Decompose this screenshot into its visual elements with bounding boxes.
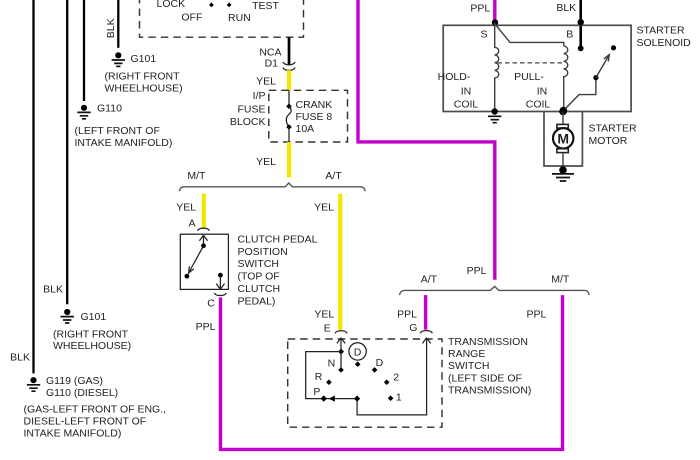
range switch arrow E <box>337 338 345 352</box>
svg-text:CLUTCH: CLUTCH <box>238 283 281 295</box>
svg-text:SWITCH: SWITCH <box>238 258 279 270</box>
svg-text:NCA: NCA <box>259 46 281 58</box>
wire BLK ground branch 2 <box>66 0 68 304</box>
svg-text:PEDAL): PEDAL) <box>238 295 276 307</box>
svg-text:PPL: PPL <box>196 321 216 333</box>
svg-text:A/T: A/T <box>421 274 438 286</box>
svg-text:RANGE: RANGE <box>448 348 485 360</box>
svg-text:RUN: RUN <box>228 12 251 24</box>
range switch junction diamond E <box>338 349 344 355</box>
svg-text:SOLENOID: SOLENOID <box>637 37 692 49</box>
contact R <box>326 379 332 385</box>
svg-text:YEL: YEL <box>314 309 334 321</box>
svg-text:SWITCH: SWITCH <box>448 360 489 372</box>
brace A/T - M/T (PPL splice) <box>400 286 590 295</box>
starter motor box <box>544 112 582 167</box>
terminal C <box>214 293 226 296</box>
svg-text:YEL: YEL <box>314 201 334 213</box>
hold-in coil <box>495 22 499 111</box>
note gas/diesel ground location <box>24 403 167 439</box>
svg-text:WHEELHOUSE): WHEELHOUSE) <box>105 82 183 94</box>
connector D1 <box>283 62 295 71</box>
svg-text:OFF: OFF <box>181 11 202 23</box>
clutch pedal position switch <box>180 234 228 289</box>
range switch wiper path <box>306 343 427 415</box>
wire BLK to solenoid B <box>579 0 582 48</box>
svg-text:D: D <box>354 346 362 358</box>
contact 1 <box>388 395 394 401</box>
transmission range switch (dashed) <box>288 339 442 427</box>
svg-text:IN: IN <box>461 85 472 97</box>
svg-text:D1: D1 <box>265 58 279 70</box>
svg-text:G101: G101 <box>131 53 157 65</box>
dashed coupling link <box>498 62 563 64</box>
svg-text:(LEFT SIDE OF: (LEFT SIDE OF <box>448 372 522 384</box>
label STARTER MOTOR <box>589 123 637 147</box>
contact P <box>321 395 327 401</box>
svg-text:1: 1 <box>396 391 402 403</box>
node pull-in coil bottom <box>560 107 568 115</box>
contact N <box>338 367 344 373</box>
svg-text:MOTOR: MOTOR <box>589 135 628 147</box>
solenoid switch arm arrowhead <box>604 55 610 62</box>
wire YEL M/T branch <box>202 194 206 228</box>
svg-text:IN: IN <box>537 85 548 97</box>
svg-text:(RIGHT FRONT: (RIGHT FRONT <box>53 328 129 340</box>
svg-text:LOCK: LOCK <box>157 0 186 10</box>
note right front wheelhouse <box>53 328 131 352</box>
circled D indicator <box>349 343 366 360</box>
svg-text:P: P <box>313 386 320 398</box>
ignition contact OFF <box>209 3 214 8</box>
wire BLK ground branch 4 <box>117 0 119 48</box>
svg-text:A/T: A/T <box>325 170 342 182</box>
svg-text:(GAS-LEFT FRONT OF ENG.,: (GAS-LEFT FRONT OF ENG., <box>24 403 167 415</box>
wire YEL below fuse block <box>287 142 291 178</box>
contact 2 <box>384 379 390 385</box>
terminal A <box>198 228 210 231</box>
svg-text:BLK: BLK <box>556 2 576 14</box>
svg-text:M/T: M/T <box>187 170 206 182</box>
label CRANK FUSE 8 10A <box>296 99 333 135</box>
wire PPL to solenoid S <box>493 0 496 22</box>
brace M/T - A/T <box>179 183 365 191</box>
svg-text:BLK: BLK <box>43 284 63 296</box>
svg-text:INTAKE MANIFOLD): INTAKE MANIFOLD) <box>75 137 173 149</box>
contact corner diamond <box>354 396 360 402</box>
svg-text:COIL: COIL <box>454 98 479 110</box>
svg-text:G119 (GAS): G119 (GAS) <box>46 375 103 387</box>
svg-text:10A: 10A <box>296 123 315 135</box>
wire YEL A/T branch <box>338 194 342 330</box>
label HOLD-IN COIL <box>438 71 479 110</box>
svg-text:E: E <box>324 322 331 334</box>
solenoid contact linkage <box>563 78 596 111</box>
svg-text:POSITION: POSITION <box>238 246 288 258</box>
ground G110 intake manifold <box>77 105 90 119</box>
svg-text:BLK: BLK <box>105 18 117 38</box>
svg-text:COIL: COIL <box>526 98 551 110</box>
svg-text:N: N <box>328 357 336 369</box>
wire PPL main from top <box>358 0 495 280</box>
pull-in coil <box>564 46 568 111</box>
svg-text:PULL-: PULL- <box>514 71 544 83</box>
label CLUTCH PEDAL POSITION SWITCH (TOP OF CLUTCH PEDAL) <box>238 233 318 307</box>
svg-text:D: D <box>376 357 384 369</box>
svg-text:DIESEL-LEFT FRONT OF: DIESEL-LEFT FRONT OF <box>24 415 147 427</box>
terminal E <box>335 331 347 334</box>
node motor feed <box>559 108 567 116</box>
svg-text:PPL: PPL <box>397 308 417 320</box>
wire NCA from ignition switch <box>288 37 291 65</box>
wire PPL A/T branch to G <box>424 295 427 330</box>
label STARTER SOLENOID <box>637 24 692 49</box>
svg-text:M: M <box>557 131 569 147</box>
ground below hold-in coil <box>488 108 501 122</box>
svg-text:STARTER: STARTER <box>589 123 637 135</box>
ground G101 wheelhouse upper <box>112 52 125 66</box>
contact B stub <box>578 45 584 51</box>
svg-text:A: A <box>188 218 195 230</box>
svg-text:PPL: PPL <box>470 3 490 15</box>
wire BLK ground branch 1 <box>32 0 34 373</box>
wire BLK ground branch 3 <box>83 0 85 101</box>
motor M1 <box>553 112 573 167</box>
svg-text:FUSE 8: FUSE 8 <box>296 111 333 123</box>
terminal G <box>420 331 432 334</box>
note right front wheelhouse upper <box>105 71 183 95</box>
svg-text:(RIGHT FRONT: (RIGHT FRONT <box>105 71 181 83</box>
svg-text:TRANSMISSION): TRANSMISSION) <box>448 385 531 397</box>
contact D <box>372 367 378 373</box>
svg-text:HOLD-: HOLD- <box>438 71 471 83</box>
ignition switch (dashed box, cut at top) <box>140 0 304 37</box>
svg-text:STARTER: STARTER <box>637 24 685 36</box>
link S to pull-in coil <box>495 24 564 46</box>
label I/P FUSE BLOCK <box>230 90 266 128</box>
svg-text:G: G <box>409 322 417 334</box>
svg-text:B: B <box>566 29 573 41</box>
node B <box>578 19 584 25</box>
node S <box>492 19 498 25</box>
svg-text:I/P: I/P <box>253 90 266 102</box>
ignition contact RUN <box>227 3 232 8</box>
solenoid fixed contact <box>611 45 616 50</box>
label TRANSMISSION RANGE SWITCH (LEFT SIDE OF TRANSMISSION) <box>448 336 531 397</box>
svg-text:C: C <box>207 297 215 309</box>
solenoid switch pivot <box>593 75 598 80</box>
svg-text:YEL: YEL <box>256 156 276 168</box>
svg-text:PPL: PPL <box>526 308 546 320</box>
svg-text:TRANSMISSION: TRANSMISSION <box>448 336 528 348</box>
I/P fuse block (dashed) <box>269 90 348 142</box>
svg-text:INTAKE MANIFOLD): INTAKE MANIFOLD) <box>24 428 122 440</box>
svg-text:YEL: YEL <box>256 75 276 87</box>
ground G101 wheelhouse <box>61 309 74 323</box>
svg-text:(TOP OF: (TOP OF <box>238 271 280 283</box>
svg-text:TEST: TEST <box>252 0 279 12</box>
svg-text:YEL: YEL <box>176 201 196 213</box>
contact circled D <box>355 361 361 367</box>
svg-text:WHEELHOUSE): WHEELHOUSE) <box>53 340 131 352</box>
svg-text:S: S <box>480 29 487 41</box>
note left front of intake manifold <box>75 125 173 149</box>
svg-text:G110 (DIESEL): G110 (DIESEL) <box>46 387 118 399</box>
svg-text:R: R <box>315 371 323 383</box>
label PULL-IN COIL <box>514 71 550 110</box>
solenoid switch arm <box>596 55 609 78</box>
starter solenoid box <box>443 25 631 111</box>
wire YEL connector to fuse block <box>287 70 291 90</box>
svg-text:CLUTCH PEDAL: CLUTCH PEDAL <box>238 233 318 245</box>
svg-text:PPL: PPL <box>467 265 487 277</box>
fuse lead upper <box>288 90 290 106</box>
svg-text:M/T: M/T <box>551 274 570 286</box>
range switch arrow G <box>423 338 431 344</box>
ground below starter motor <box>552 166 574 181</box>
svg-text:FUSE: FUSE <box>237 104 265 116</box>
svg-text:G101: G101 <box>81 311 107 323</box>
svg-text:BLOCK: BLOCK <box>230 116 266 128</box>
range switch stub to N <box>340 352 342 370</box>
wiper arrowhead at P <box>329 396 335 402</box>
svg-text:CRANK: CRANK <box>296 99 333 111</box>
svg-text:G110: G110 <box>97 103 122 115</box>
svg-text:(LEFT FRONT OF: (LEFT FRONT OF <box>75 125 160 137</box>
svg-text:2: 2 <box>393 371 399 383</box>
fuse lead lower <box>288 127 290 142</box>
fuse CRANK FUSE 8 10A <box>286 104 292 130</box>
svg-text:BLK: BLK <box>10 351 30 363</box>
ground G119/G110 <box>27 377 40 391</box>
wire PPL from clutch switch to M/T splice <box>221 295 563 449</box>
